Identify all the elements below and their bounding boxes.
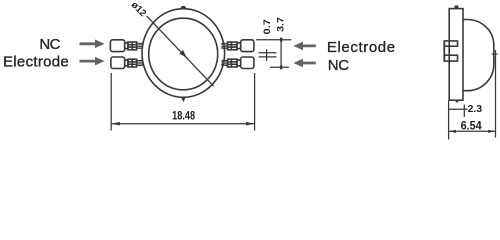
diameter arrowhead [179, 50, 186, 57]
dim 6.54 line [449, 130, 496, 132]
top tab bump [180, 6, 186, 9]
dome arc [467, 20, 494, 91]
svg-text:6.54: 6.54 [461, 120, 483, 132]
terminal pad lower-right [241, 57, 254, 69]
dome top stub [463, 19, 467, 21]
prongs upper-right [222, 43, 228, 45]
arrow right upper-left [80, 40, 105, 49]
svg-text:NC: NC [39, 36, 60, 53]
bottom tab bump [181, 98, 185, 103]
crimp upper-right [228, 42, 237, 50]
neck lower-right [237, 60, 241, 66]
dim 18.48 line [111, 123, 254, 125]
dome right tick [492, 53, 498, 55]
dim 18.48 arrow left [111, 122, 120, 126]
neck upper-right [237, 43, 241, 49]
svg-text:18.48: 18.48 [172, 110, 195, 122]
extension line top (right dims) [256, 39, 291, 41]
svg-text:3.7: 3.7 [275, 17, 285, 32]
arrow left upper-right [293, 42, 315, 51]
side view plate [449, 9, 463, 101]
crimp upper-left [128, 42, 137, 50]
svg-text:Electrode: Electrode [3, 54, 69, 71]
dim 6.54 arrow left [449, 130, 456, 133]
neck upper-left [125, 43, 128, 49]
terminal pad lower-left [111, 57, 125, 69]
diameter leader line [147, 16, 214, 86]
dim 6.54 arrow right [488, 130, 495, 133]
side tab lower [444, 55, 457, 61]
arrow right lower-left [80, 57, 105, 66]
outer circle (top view disc) [142, 9, 225, 98]
dome bottom stub [463, 90, 472, 92]
dim 2.3 line [449, 108, 468, 110]
crimp lower-left [128, 59, 137, 67]
dim 0.7 line [266, 49, 268, 61]
neck lower-left [125, 60, 128, 66]
prongs upper-left [137, 43, 143, 45]
svg-text:Electrode: Electrode [327, 39, 396, 56]
side tab upper [444, 41, 457, 46]
inner circle (electrode) [149, 18, 218, 90]
prongs lower-right [222, 61, 228, 63]
crimp lower-right [228, 59, 237, 67]
extension line right (18.48) [254, 73, 256, 131]
svg-text:2.3: 2.3 [468, 103, 483, 115]
svg-text:0.7: 0.7 [262, 19, 272, 34]
svg-text:ø12: ø12 [129, 0, 148, 19]
dim 3.7 line [280, 38, 282, 70]
dim 2.3 tick [463, 105, 465, 118]
svg-text:NC: NC [328, 57, 350, 74]
terminal pad upper-left [110, 40, 124, 52]
extension line right (6.54) [495, 50, 497, 138]
terminal pad upper-right [241, 40, 254, 52]
prongs lower-left [137, 61, 143, 63]
dim 18.48 arrow right [246, 122, 255, 126]
arrow left lower-right [293, 59, 315, 68]
tab connector bar [443, 41, 445, 62]
plate bottom arrow [454, 100, 460, 103]
extension line left (side dims) [448, 100, 450, 139]
plate top tick [455, 5, 459, 8]
extension line left (18.48) [110, 73, 112, 131]
